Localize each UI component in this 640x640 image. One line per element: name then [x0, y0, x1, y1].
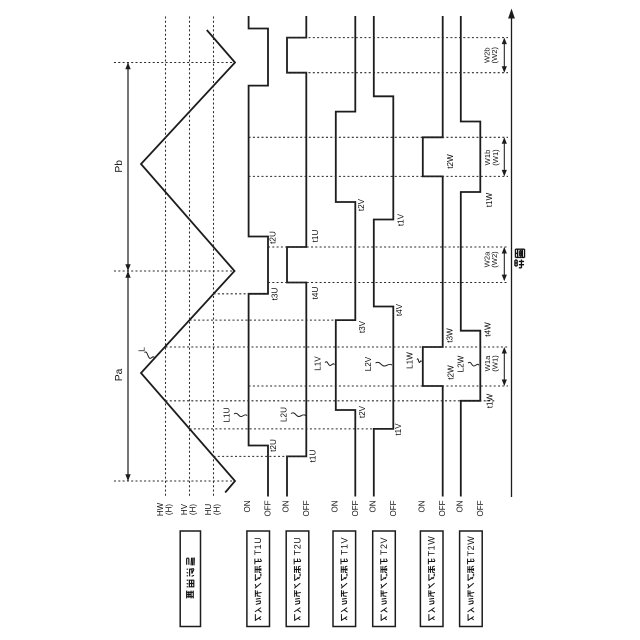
time axis arrowhead	[508, 9, 515, 19]
svg-text:T1W: T1W	[427, 536, 437, 557]
time axis line	[511, 12, 513, 497]
waveform switching element T2V	[374, 16, 394, 497]
svg-text:L1W: L1W	[406, 352, 415, 369]
svg-text:t1U: t1U	[309, 450, 318, 463]
svg-text:(W2): (W2)	[490, 47, 499, 64]
waveform switching element T1V	[336, 16, 356, 497]
svg-text:t3W: t3W	[446, 328, 455, 343]
waveform switching element T2U	[287, 16, 306, 497]
svg-text:OFF: OFF	[438, 500, 447, 516]
svg-text:T1U: T1U	[253, 537, 263, 556]
svg-text:t3V: t3V	[358, 320, 367, 333]
svg-text:L1U: L1U	[223, 407, 232, 422]
box スイッチング素子T2W (switching element T2W)	[460, 531, 483, 627]
svg-text:(H): (H)	[189, 504, 198, 515]
svg-text:OFF: OFF	[389, 500, 398, 516]
svg-text:(H): (H)	[213, 504, 222, 515]
dashed line W2b lower (t=72.7)	[287, 72, 508, 74]
dashed line W1b upper (t=137.3)	[249, 136, 508, 138]
box スイッチング素子T1V (switching element T1V)	[333, 531, 356, 627]
svg-text:T2W: T2W	[466, 536, 476, 557]
svg-text:(W1): (W1)	[490, 355, 499, 372]
label 時間 (time axis)	[515, 259, 524, 267]
svg-text:T2U: T2U	[293, 537, 303, 556]
svg-text:t1V: t1V	[397, 213, 406, 226]
interval arrow W1b	[503, 139, 505, 176]
dashed line W2a lower (t=281.1)	[268, 282, 508, 284]
svg-text:OFF: OFF	[302, 500, 311, 516]
svg-text:Pb: Pb	[114, 160, 125, 173]
svg-text:t2W: t2W	[446, 154, 455, 169]
dashed line W2a upper (t=247)	[268, 246, 508, 248]
dashed line W1a lower (t=386)	[249, 385, 508, 387]
svg-text:ON: ON	[243, 500, 252, 512]
svg-text:t4V: t4V	[395, 303, 404, 316]
dashed line at carrier peak Pa end (y=481)	[114, 480, 234, 482]
svg-text:t2U: t2U	[269, 439, 278, 452]
dashed line W1b lower (t=176.4)	[249, 175, 508, 177]
Pa/Pb period arrow line	[127, 63, 129, 482]
svg-text:OFF: OFF	[264, 500, 273, 516]
arrowhead Pb bottom / Pa top (cross)	[125, 264, 130, 271]
svg-text:(W2): (W2)	[490, 251, 499, 268]
arrowhead Pa bottom	[125, 474, 130, 481]
svg-text:ON: ON	[282, 500, 291, 512]
svg-text:T1V: T1V	[339, 537, 349, 555]
svg-text:L2W: L2W	[457, 355, 466, 372]
svg-text:ON: ON	[455, 500, 464, 512]
box スイッチング素子T2V (switching element T2V)	[373, 531, 396, 627]
svg-text:T2V: T2V	[379, 537, 389, 555]
dashed line t3U crossing (t=293.8)	[214, 293, 269, 295]
dashed line at carrier peak Pa/Pb boundary (y=271)	[114, 270, 234, 272]
dashed line t1V crossing (t=428.9)	[190, 428, 394, 430]
svg-text:OFF: OFF	[476, 500, 485, 516]
svg-text:t2W: t2W	[447, 365, 456, 380]
svg-text:L2V: L2V	[364, 356, 373, 371]
svg-text:t3U: t3U	[271, 288, 280, 301]
box スイッチング素子T1W (switching element T1W)	[420, 531, 443, 627]
svg-text:t2U: t2U	[269, 231, 278, 244]
svg-text:t1U: t1U	[311, 230, 320, 243]
svg-text:t2V: t2V	[358, 405, 367, 418]
svg-text:ON: ON	[368, 500, 377, 512]
box 基準波形 (reference waveform)	[180, 531, 200, 627]
carrier level line HU(H)	[213, 17, 215, 498]
svg-text:(H): (H)	[165, 504, 174, 515]
carrier level line HW(H)	[165, 17, 167, 498]
svg-text:OFF: OFF	[351, 500, 360, 516]
interval arrow W2a	[503, 248, 505, 280]
waveform switching element T2W	[461, 16, 481, 497]
dashed line W2b upper (t=37.6)	[287, 37, 508, 39]
svg-text:t1W: t1W	[485, 192, 494, 207]
waveform switching element T1U	[249, 16, 268, 497]
carrier level line HV(H)	[189, 17, 191, 498]
svg-text:L1V: L1V	[314, 356, 323, 371]
svg-text:t4W: t4W	[484, 322, 493, 337]
interval arrow W2b	[503, 39, 505, 72]
svg-text:t1W: t1W	[486, 393, 495, 408]
arrowhead Pb top	[125, 63, 130, 70]
box スイッチング素子T2U (switching element T2U)	[286, 531, 309, 627]
svg-text:t1V: t1V	[394, 423, 403, 436]
dashed line W1a upper (t=347)	[166, 346, 509, 348]
svg-text:L2U: L2U	[280, 407, 289, 422]
svg-text:Pa: Pa	[114, 368, 125, 381]
dashed line t1U crossing (t=456.4)	[214, 455, 307, 457]
svg-text:(W1): (W1)	[491, 149, 500, 166]
svg-text:L: L	[137, 347, 147, 352]
dashed line t3V crossing (t=320.1)	[190, 319, 356, 321]
waveform switching element T1W	[423, 16, 443, 497]
svg-text:ON: ON	[417, 500, 426, 512]
box スイッチング素子T1U (switching element T1U)	[247, 531, 270, 627]
svg-text:t4U: t4U	[311, 287, 320, 300]
dashed line t1W crossing (t=400.8)	[166, 400, 496, 402]
triangle carrier wave 基準波形	[141, 30, 235, 493]
interval arrow W1a	[503, 348, 505, 385]
dashed line at carrier peak Pb start (y=62.5)	[114, 62, 234, 64]
svg-text:t2V: t2V	[357, 198, 366, 211]
svg-text:ON: ON	[330, 500, 339, 512]
